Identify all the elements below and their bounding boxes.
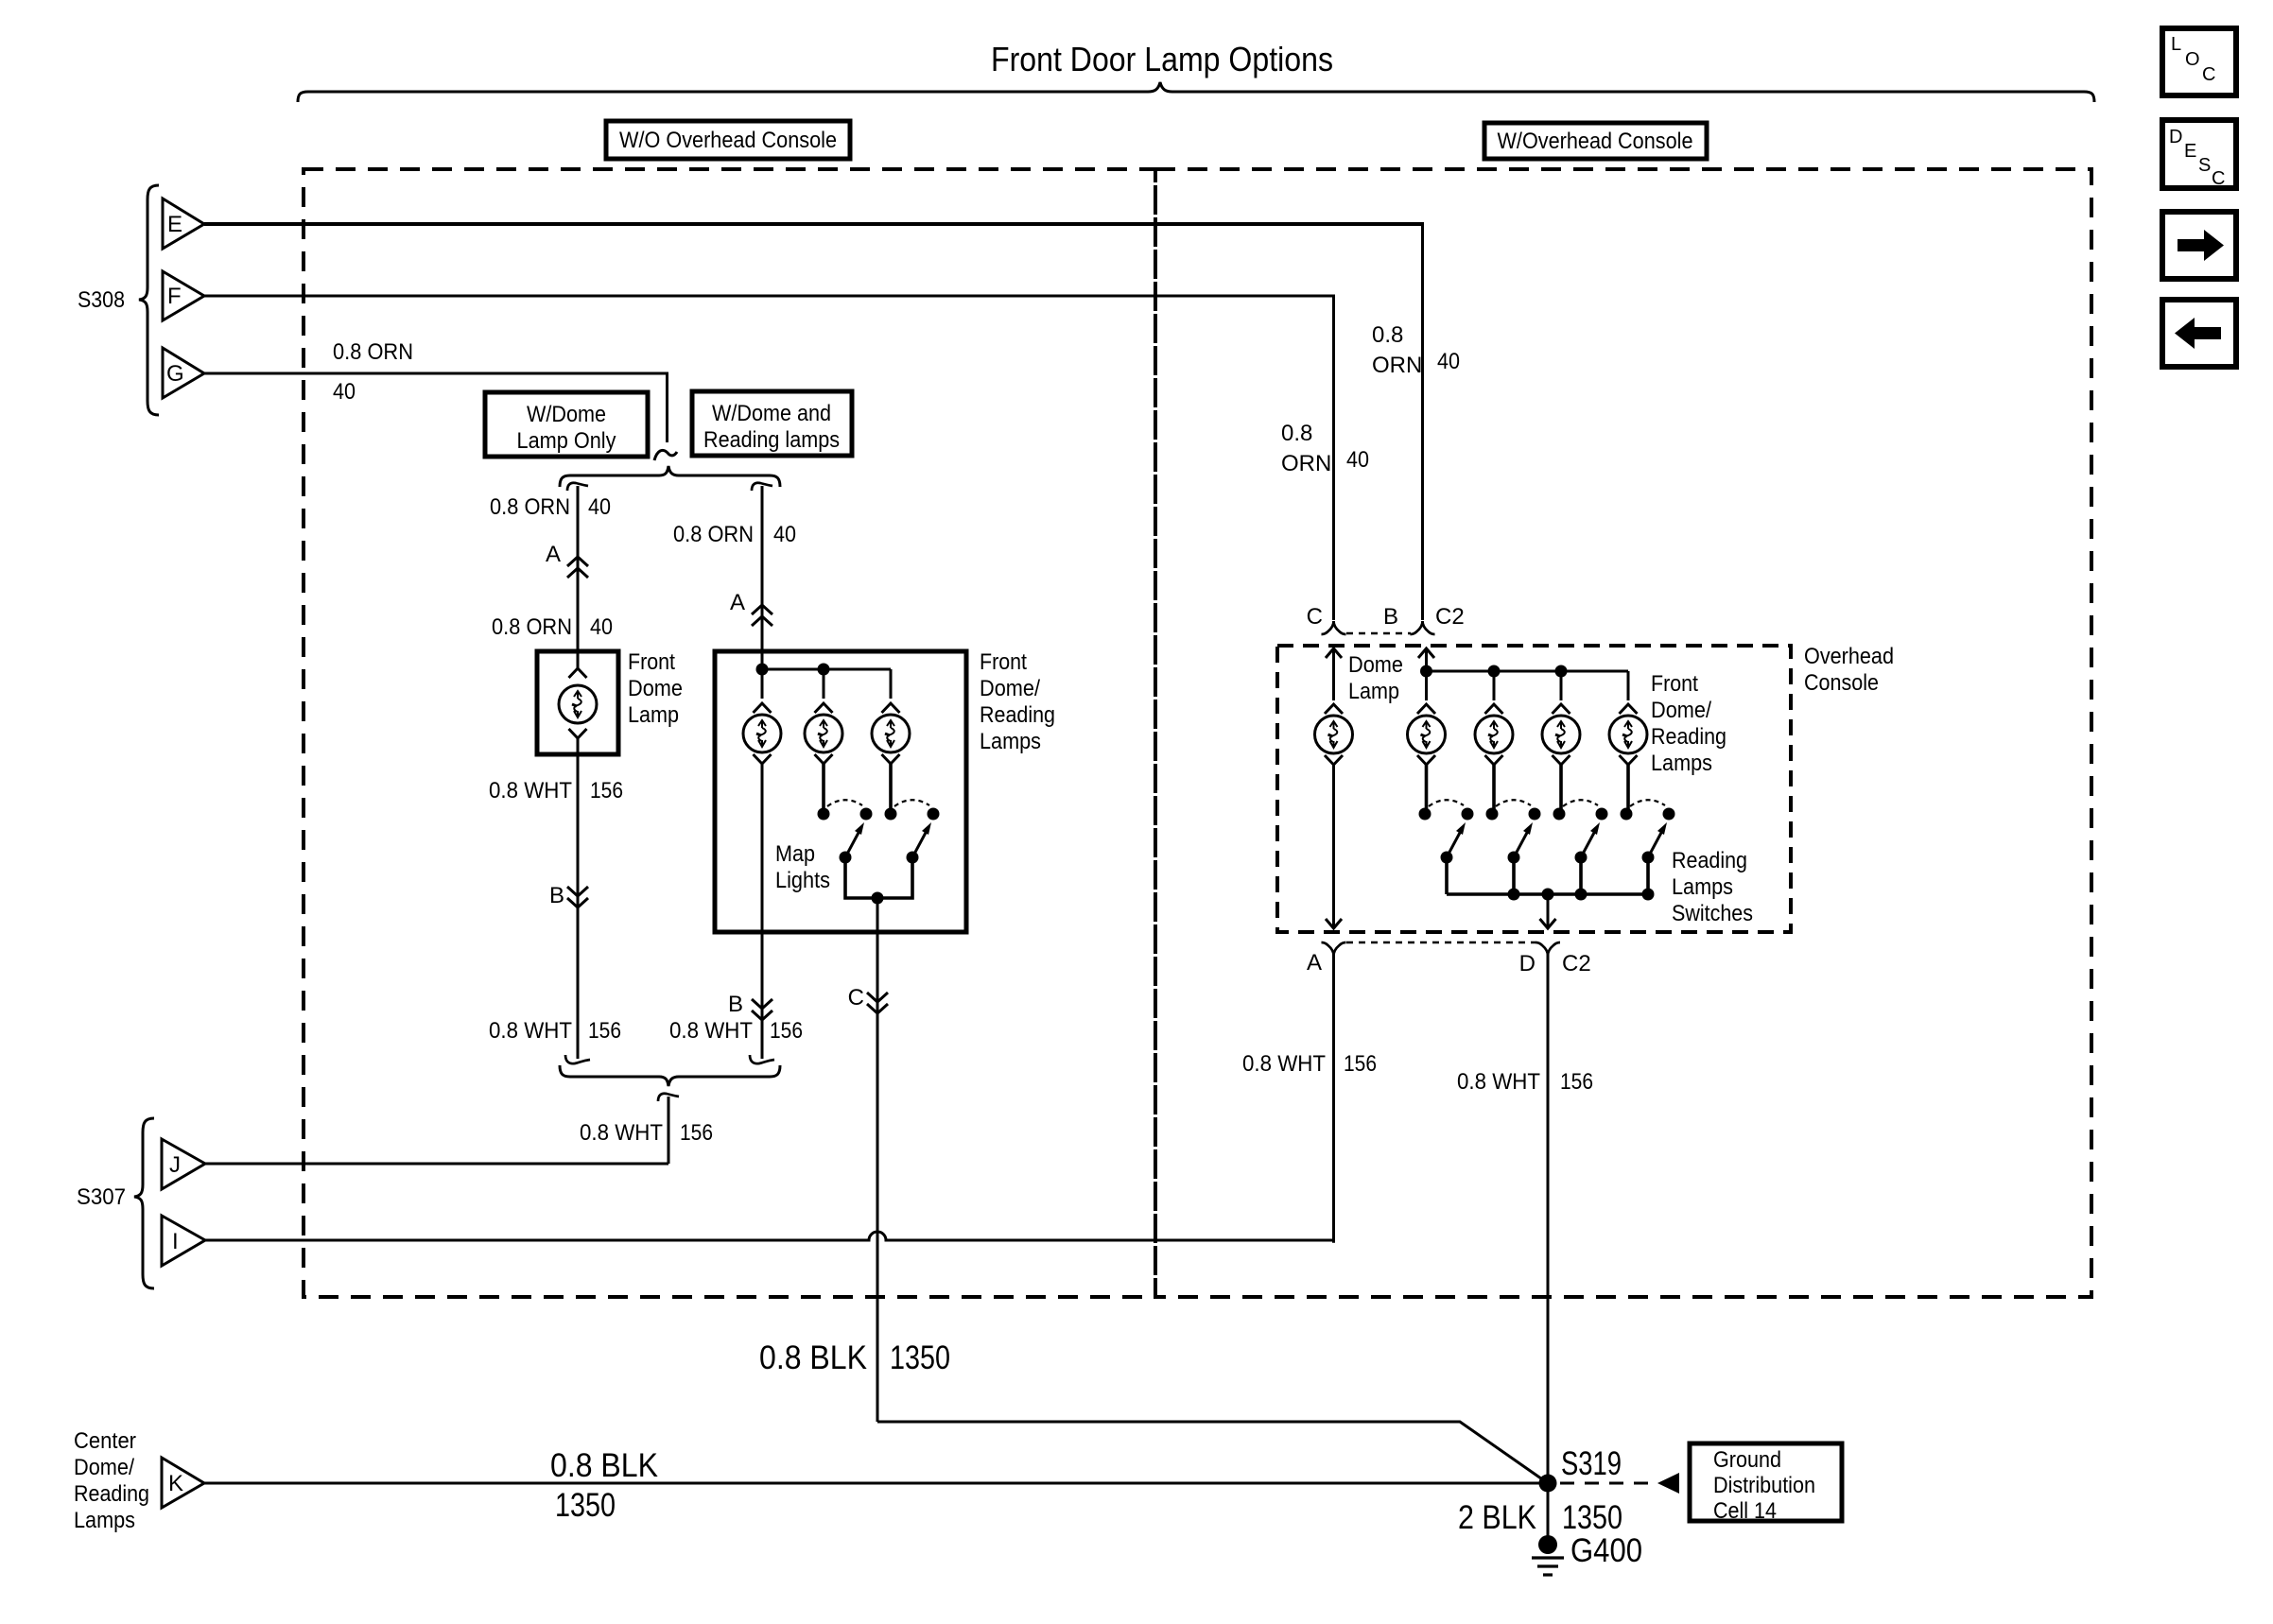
connector F (163, 271, 204, 320)
wire A down to I wire (1334, 953, 1336, 1241)
svg-text:0.8: 0.8 (1281, 421, 1312, 446)
console reading lamp 2 (1475, 671, 1513, 811)
svg-text:B: B (1383, 604, 1398, 630)
junction dot (756, 664, 769, 676)
connector chevrons A (right branch) (752, 605, 772, 626)
wire S319 to ground (1547, 1483, 1550, 1545)
reading lamp switch 2 (1486, 800, 1541, 863)
connector J (162, 1139, 205, 1189)
title overbrace (298, 82, 2094, 102)
label Front Dome/ Reading Lamps (console) (1651, 671, 1726, 776)
wire F vertical drop (1332, 296, 1335, 620)
svg-text:G400: G400 (1570, 1532, 1642, 1569)
Front Dome Lamp box (537, 651, 618, 754)
svg-text:Lamps: Lamps (1651, 751, 1712, 776)
svg-text:Lamp Only: Lamp Only (517, 428, 616, 454)
svg-text:Lights: Lights (775, 868, 830, 893)
svg-text:156: 156 (1560, 1069, 1593, 1095)
dashed box W/O overhead console region (304, 169, 1155, 1297)
icon box left-arrow (2162, 300, 2236, 367)
reading lamp 3 drop (890, 669, 893, 699)
connector I (162, 1216, 205, 1266)
svg-text:1350: 1350 (1562, 1499, 1622, 1536)
reading lamp 1 bulb (743, 715, 781, 752)
svg-text:ORN: ORN (1281, 451, 1331, 476)
wire G horizontal (204, 372, 668, 375)
wire E horizontal (204, 222, 1424, 226)
map light switch 1 (818, 800, 873, 863)
wire J (205, 1163, 668, 1166)
svg-text:0.8 WHT: 0.8 WHT (489, 1018, 572, 1044)
wire E vertical drop (1421, 222, 1424, 620)
reference arrowhead (1657, 1473, 1679, 1494)
reading lamp 3 bulb (872, 715, 910, 752)
svg-text:0.8 BLK: 0.8 BLK (759, 1339, 867, 1376)
label Center Dome/ Reading Lamps (74, 1428, 149, 1533)
connector E (163, 199, 204, 249)
svg-text:Reading: Reading (980, 702, 1055, 728)
dashed connector line C2 bottom (1346, 942, 1536, 943)
dome lamp terminal chevron (1325, 704, 1343, 714)
lamp terminal chevron (dome lamp out) (569, 729, 587, 738)
svg-text:0.8 ORN: 0.8 ORN (333, 339, 413, 365)
switch pivot stems and bottom bus (845, 857, 912, 898)
svg-text:40: 40 (1437, 349, 1460, 374)
node A branch wire right (W/Dome and Reading lamps) (752, 483, 772, 491)
wire I with hop over C wire (205, 1232, 1335, 1240)
connector arrow out of console (D) (1540, 919, 1556, 928)
svg-text:D: D (2169, 127, 2182, 147)
svg-text:0.8: 0.8 (1372, 322, 1403, 348)
wire lamp1 down and out of box (761, 764, 764, 1059)
icon box right-arrow (2162, 212, 2236, 279)
icon box LOC (2162, 28, 2236, 95)
svg-text:Front: Front (1651, 671, 1698, 697)
lamp terminal chevron (dome lamp in) (569, 668, 587, 678)
svg-text:Dome/: Dome/ (1651, 698, 1711, 723)
svg-text:B: B (728, 992, 743, 1017)
svg-text:D: D (1519, 951, 1536, 976)
reading lamp switch 3 (1553, 800, 1608, 863)
ground G400 symbol (1532, 1535, 1564, 1575)
connector chevrons A (left branch) (567, 557, 588, 578)
svg-text:0.8 WHT: 0.8 WHT (1457, 1069, 1540, 1095)
svg-text:S308: S308 (78, 287, 125, 313)
map light switch 2 (885, 800, 940, 863)
svg-text:Dome/: Dome/ (74, 1455, 134, 1480)
svg-text:Reading: Reading (74, 1481, 149, 1507)
wire end curl (left branch) (565, 1055, 590, 1063)
svg-text:C: C (2202, 64, 2215, 85)
svg-text:40: 40 (590, 614, 613, 640)
junction dot (1555, 665, 1568, 678)
label box W/Dome and Reading lamps (692, 391, 852, 456)
svg-text:156: 156 (680, 1120, 713, 1146)
svg-text:1350: 1350 (890, 1339, 950, 1376)
reading lamp bus (1427, 670, 1629, 673)
svg-text:Map: Map (775, 841, 815, 867)
svg-text:S: S (2198, 155, 2211, 176)
label 0.8 ORN 40 (F drop) (1281, 421, 1369, 476)
bus wire inside box (762, 668, 891, 671)
wire below dome lamp (577, 754, 580, 1059)
svg-text:Reading: Reading (1651, 724, 1726, 750)
svg-text:A: A (1307, 950, 1322, 976)
svg-text:0.8 BLK: 0.8 BLK (550, 1447, 658, 1484)
connector chevrons B (right branch) (752, 999, 772, 1020)
svg-text:S319: S319 (1561, 1445, 1622, 1482)
svg-text:40: 40 (588, 494, 611, 520)
svg-text:0.8 WHT: 0.8 WHT (1242, 1051, 1326, 1077)
splice underbrace (WHT join) (560, 1065, 780, 1086)
svg-text:B: B (549, 883, 564, 908)
svg-text:L: L (2171, 34, 2181, 55)
reading lamp 1 drop (761, 651, 764, 699)
svg-text:156: 156 (590, 778, 623, 803)
svg-text:Lamps: Lamps (74, 1508, 135, 1533)
junction dot (818, 664, 830, 676)
svg-text:Switches: Switches (1672, 901, 1753, 926)
label Dome Lamp (1348, 652, 1403, 704)
wire F horizontal (204, 295, 1335, 298)
wire end curl (right branch) (750, 1055, 774, 1063)
dashed reference line to ground distribution (1560, 1482, 1657, 1485)
console reading lamp 4 (1609, 671, 1647, 811)
svg-text:Lamps: Lamps (980, 729, 1041, 754)
connector arrow into console (reading lamps B) (1418, 648, 1434, 658)
label Reading Lamps Switches (1672, 848, 1753, 926)
svg-text:156: 156 (770, 1018, 803, 1044)
connector D half below console (1536, 942, 1560, 956)
label Front Dome Lamp (628, 649, 683, 728)
svg-text:Dome/: Dome/ (980, 676, 1040, 701)
wire lamp3 to switch (889, 764, 893, 811)
connector C half (F wire end) (1322, 621, 1346, 634)
svg-text:Front: Front (980, 649, 1027, 675)
junction dot (1488, 665, 1501, 678)
label box W/Overhead Console (1484, 123, 1707, 159)
connector chevrons C (867, 993, 888, 1013)
svg-text:W/Overhead Console: W/Overhead Console (1498, 129, 1693, 154)
svg-text:Distribution: Distribution (1713, 1473, 1815, 1498)
svg-text:ORN: ORN (1372, 353, 1422, 378)
svg-text:C: C (2212, 168, 2225, 189)
svg-text:Reading lamps: Reading lamps (703, 427, 840, 453)
reading lamp switch 4 (1621, 800, 1675, 863)
wire C branch down from switches (876, 898, 879, 1422)
wire G vertical drop (666, 373, 668, 442)
svg-text:1350: 1350 (555, 1487, 616, 1524)
wire D down to S319 (1547, 953, 1550, 1483)
label 0.8 ORN 40 (E drop) (1372, 322, 1460, 378)
dome lamp bulb (559, 685, 597, 723)
label Front Dome/ Reading Lamps (980, 649, 1055, 754)
svg-text:0.8 WHT: 0.8 WHT (580, 1120, 663, 1146)
svg-text:E: E (167, 212, 182, 237)
svg-text:Cell 14: Cell 14 (1713, 1498, 1777, 1524)
svg-text:W/O Overhead Console: W/O Overhead Console (619, 128, 837, 153)
wire C branch to S319 (877, 1422, 1548, 1483)
splice brace S308 (139, 185, 159, 415)
switch pivot stems (1445, 857, 1449, 894)
console reading lamp 1 (1408, 671, 1446, 811)
console reading lamp 3 (1542, 671, 1580, 811)
svg-text:C: C (1307, 604, 1323, 630)
splice tilde at end of G wire (654, 450, 677, 460)
svg-text:Front Door Lamp Options: Front Door Lamp Options (991, 40, 1333, 78)
switch output bus (1447, 892, 1648, 896)
svg-text:Lamp: Lamp (1348, 679, 1399, 704)
svg-text:0.8 WHT: 0.8 WHT (669, 1018, 753, 1044)
svg-text:Reading: Reading (1672, 848, 1747, 873)
svg-text:Dome: Dome (628, 676, 683, 701)
wire dome lamp to console exit (1332, 765, 1335, 928)
svg-text:C: C (848, 985, 864, 1011)
svg-text:W/Dome and: W/Dome and (712, 401, 831, 426)
reading lamp switch 1 (1419, 800, 1474, 863)
label box W/Dome Lamp Only (485, 392, 648, 457)
dome lamp bulb (console) (1315, 716, 1353, 753)
reading lamp 2 bulb (805, 715, 842, 752)
joined WHT wire down to J wire (668, 1097, 670, 1164)
joined WHT wire curl (658, 1094, 679, 1101)
svg-text:0.8 ORN: 0.8 ORN (492, 614, 572, 640)
splice S319 junction dot (1539, 1475, 1557, 1493)
svg-text:40: 40 (333, 379, 356, 405)
svg-text:J: J (169, 1152, 181, 1178)
dashed connector line C2 top (1346, 632, 1411, 634)
svg-text:E: E (2184, 141, 2196, 162)
svg-text:C2: C2 (1562, 951, 1591, 976)
connector arrow into console (dome) (1326, 648, 1342, 658)
svg-text:I: I (172, 1229, 179, 1254)
node A branch wire left (W/Dome Lamp Only) (567, 483, 588, 491)
svg-text:Center: Center (74, 1428, 136, 1454)
label box W/O Overhead Console (606, 121, 850, 159)
connector chevrons B (left branch) (567, 887, 588, 907)
svg-text:Lamp: Lamp (628, 702, 679, 728)
svg-text:W/Dome: W/Dome (527, 402, 606, 427)
dashed box W/overhead console region (1155, 169, 2091, 1297)
svg-text:40: 40 (773, 522, 796, 547)
reading lamp 2 drop (823, 669, 825, 699)
Front Dome/Reading Lamps box (715, 651, 966, 932)
svg-text:G: G (166, 361, 184, 387)
svg-text:Ground: Ground (1713, 1447, 1781, 1473)
splice brace S307 (134, 1118, 154, 1288)
wire K to S319 (204, 1482, 1548, 1485)
svg-text:40: 40 (1346, 447, 1369, 473)
svg-text:0.8 WHT: 0.8 WHT (489, 778, 572, 803)
wire lamp2 to switch (822, 764, 825, 811)
svg-text:Front: Front (628, 649, 675, 675)
svg-text:S307: S307 (77, 1184, 126, 1210)
svg-text:Console: Console (1804, 670, 1879, 696)
wire switches out (D) (1547, 894, 1550, 928)
svg-text:Overhead: Overhead (1804, 644, 1894, 669)
svg-text:156: 156 (588, 1018, 621, 1044)
connector arrow out of console (A) (1326, 919, 1342, 928)
icon box DESC (2162, 120, 2236, 189)
dashed box Overhead Console (1277, 646, 1791, 932)
wire dome lamp internal (577, 651, 580, 668)
svg-text:0.8 ORN: 0.8 ORN (673, 522, 754, 547)
svg-text:Dome: Dome (1348, 652, 1403, 678)
junction dot (1420, 665, 1432, 678)
svg-text:A: A (730, 590, 745, 615)
svg-text:C2: C2 (1435, 604, 1465, 630)
svg-text:K: K (168, 1471, 183, 1496)
svg-text:0.8 ORN: 0.8 ORN (490, 494, 570, 520)
label Map Lights (775, 841, 830, 893)
junction dots on switch bus (1508, 889, 1520, 901)
svg-text:O: O (2185, 49, 2200, 70)
connector G (163, 348, 204, 398)
wire reading lamp bus feed (1425, 648, 1428, 671)
connector B half (E wire end) (1411, 621, 1435, 634)
svg-text:F: F (167, 284, 182, 309)
svg-text:156: 156 (1344, 1051, 1377, 1077)
connector K (162, 1458, 204, 1508)
svg-text:Lamps: Lamps (1672, 874, 1733, 900)
option overbrace under label boxes (560, 466, 780, 487)
wire dome lamp feed (1332, 648, 1335, 700)
svg-text:A: A (546, 542, 561, 567)
connector A half below console (1322, 942, 1346, 956)
Ground Distribution Cell 14 box (1690, 1443, 1842, 1524)
junction dot on switch bus (872, 892, 884, 905)
label Overhead Console (1804, 644, 1894, 696)
svg-text:2 BLK: 2 BLK (1458, 1499, 1536, 1536)
